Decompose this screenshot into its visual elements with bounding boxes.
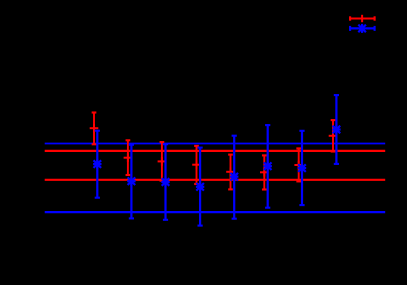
blue data point B5 with error bar xyxy=(230,136,238,219)
fit line 3 (red lower) xyxy=(45,179,386,181)
blue data point B6 with error bar xyxy=(264,125,272,208)
blue data point B1 with error bar xyxy=(93,131,101,198)
legend sample blue (errorbar with star marker) xyxy=(350,24,375,33)
red data point R6 with error bar xyxy=(260,155,269,189)
fit line 1 (blue upper) xyxy=(45,143,386,145)
red data point R7 with error bar xyxy=(294,148,303,181)
legend sample red (errorbar with plus marker) xyxy=(350,15,375,22)
fit line 4 (blue lower) xyxy=(45,211,386,213)
red data point R1 with error bar xyxy=(90,113,99,145)
blue data point B7 with error bar xyxy=(298,131,306,205)
red data point R4 with error bar xyxy=(192,146,201,184)
red data point R2 with error bar xyxy=(124,140,133,175)
fit line 2 (red upper) xyxy=(45,150,386,152)
red data point R3 with error bar xyxy=(158,142,167,181)
red data point R5 with error bar xyxy=(226,155,235,190)
red data point R8 with error bar xyxy=(329,120,338,151)
blue data point B4 with error bar xyxy=(196,148,204,226)
blue data point B3 with error bar xyxy=(161,144,169,220)
blue data point B8 with error bar xyxy=(332,95,340,164)
blue data point B2 with error bar xyxy=(127,145,135,219)
